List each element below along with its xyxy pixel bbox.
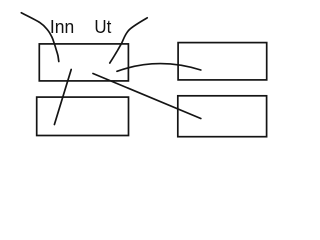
svg-text:Ut: Ut bbox=[94, 17, 111, 37]
svg-text:Inn: Inn bbox=[50, 17, 74, 37]
